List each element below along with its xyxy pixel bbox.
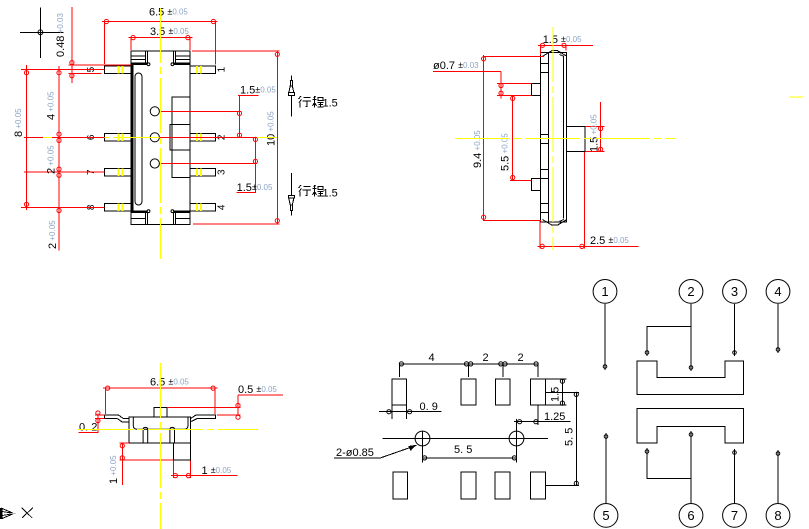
pcb dim 1.25 (514, 406, 571, 426)
travel arrow up (288, 76, 294, 117)
svg-text:1: 1 (601, 284, 608, 299)
pin 6 row leader redraw (52, 136, 104, 138)
side view horizontal centerline (455, 138, 676, 140)
plan view pin 8 (104, 204, 131, 212)
plan view bottom-left mount tab (131, 210, 150, 225)
svg-text:7: 7 (731, 508, 738, 523)
dim 1 front left (120, 443, 174, 485)
front view right leg (170, 427, 175, 443)
pin number labels plan view (86, 66, 228, 210)
pcb dim 1.5 pad (546, 379, 579, 405)
pcb pad bottom 2 (461, 472, 476, 499)
terminal circle 7 (723, 504, 747, 528)
plan view vertical centerline (160, 8, 162, 259)
pcb pad top 3 (496, 379, 510, 405)
plan view top-left mount tab (131, 51, 150, 66)
plan view slider block (170, 97, 190, 178)
dim 1.5 knob (585, 102, 605, 151)
svg-text:2-ø0.85: 2-ø0.85 (336, 447, 374, 459)
contact bracket bottom (637, 408, 744, 443)
svg-text:4: 4 (429, 352, 435, 364)
pcb pad bottom 3 (495, 472, 510, 499)
front view right gull wing (191, 415, 216, 422)
dim 6.5 top (102, 19, 218, 64)
contact circle leader lines (159, 111, 257, 163)
svg-text:3: 3 (731, 284, 738, 299)
plan view pin 6 (104, 134, 131, 142)
dim 0.2 front (78, 411, 104, 432)
side view vertical centerline (552, 27, 554, 250)
plan view top-right mount tab (171, 51, 190, 66)
far right stray centerline (789, 96, 803, 98)
schematic pin line 7 (733, 449, 737, 503)
schematic pin line 2 (645, 304, 693, 371)
origin crosshair (20, 8, 63, 58)
dim 0.48 (69, 7, 132, 83)
svg-text:5. 5: 5. 5 (454, 444, 472, 456)
front view vertical centerline (160, 363, 162, 529)
front view body (129, 417, 190, 443)
corner marker X (22, 508, 33, 518)
plan view pin 7 (104, 168, 131, 176)
plan view contact hole bottom (150, 159, 159, 168)
plan view switch body outline (131, 51, 190, 225)
plan view horizontal centerline (43, 136, 277, 138)
svg-text:3: 3 (217, 169, 228, 175)
side view bottom bent tab (543, 220, 567, 226)
plan view contact hole top (150, 107, 159, 116)
plan view pin hatch marks (118, 66, 201, 211)
pcb dim 5.5 horizontal (423, 447, 517, 463)
terminal circle 6 (679, 504, 703, 528)
plan view pin 5 (104, 66, 131, 74)
svg-text:1: 1 (217, 66, 228, 72)
front view horizontal centerline (78, 429, 258, 431)
terminal circle 4 (766, 280, 790, 304)
terminal circle 5 (594, 504, 618, 528)
pcb pad top 4 (531, 379, 546, 405)
pcb dim 0.9 (379, 406, 442, 420)
pcb slot centerline (383, 438, 549, 440)
pcb callout 2-dia0.85 (334, 445, 417, 458)
pcb dim 5.5 vertical (546, 392, 579, 485)
dim 5.5 side (510, 95, 532, 180)
side view terminal boss upper (532, 83, 541, 95)
travel label upper (xing cheng 1.5) (299, 96, 324, 108)
pcb pad bottom 4 (531, 472, 546, 499)
svg-text:1.25: 1.25 (544, 411, 565, 423)
schematic pin line 6 (645, 431, 693, 503)
dim 9.4 side (482, 55, 545, 221)
plan view contact hole middle (150, 133, 159, 142)
plan dim rows red leader lines (21, 70, 104, 208)
pcb pad bottom 1 (393, 472, 407, 499)
dim dia 0.7 (433, 72, 531, 99)
plan view bottom-right mount tab (171, 210, 190, 225)
terminal circle 1 (593, 280, 617, 304)
plan view pin 4 (190, 204, 216, 212)
svg-text:4: 4 (774, 284, 781, 299)
dim 1.5 contact lower (237, 137, 258, 192)
side view actuator knob (566, 126, 585, 151)
pcb via hole left (415, 431, 430, 460)
svg-text:8: 8 (774, 508, 781, 523)
front view inner cavity (133, 417, 188, 429)
terminal circle 8 (766, 504, 790, 528)
svg-text:0. 9: 0. 9 (420, 401, 438, 413)
plan view pin 3 (190, 168, 216, 176)
svg-text:4: 4 (217, 204, 228, 210)
svg-text:2: 2 (687, 284, 694, 299)
terminal circle 3 (723, 280, 747, 304)
plan view pin 2 (190, 134, 216, 142)
pcb pad top 2 (461, 379, 476, 405)
schematic pin line 4 (776, 304, 780, 353)
side view body (541, 53, 567, 222)
svg-text:2: 2 (518, 352, 524, 364)
dim 0.5 front (167, 395, 283, 419)
svg-text:5: 5 (602, 508, 609, 523)
schematic pin line 3 (733, 304, 737, 356)
contact bracket top (637, 361, 744, 395)
svg-text:6: 6 (687, 508, 694, 523)
front view knob (154, 408, 167, 418)
pcb dim 4/2/2 (399, 362, 538, 377)
terminal circle 2 (679, 280, 703, 304)
plan view pin 1 (190, 66, 216, 74)
dim 1 front right (171, 461, 237, 479)
plan view actuator slot (135, 73, 142, 205)
dim 3.5 top (129, 36, 193, 51)
dim 1.5 side top (538, 43, 593, 55)
side view pin stubs (541, 64, 549, 213)
dim 1.5 contact upper (237, 95, 258, 137)
dim 2.5 side bottom (538, 152, 639, 249)
rotated dim texts left (13, 13, 67, 249)
svg-text:5. 5: 5. 5 (564, 428, 576, 446)
svg-text:1.5: 1.5 (323, 188, 338, 200)
travel label lower (xing cheng 1.5) (299, 185, 324, 197)
front view left leg (143, 427, 148, 443)
svg-text:1.5: 1.5 (550, 387, 562, 402)
pcb via hole right (509, 419, 524, 460)
front view foot (173, 443, 190, 460)
svg-text:2: 2 (483, 352, 489, 364)
schematic pin line 5 (604, 433, 608, 503)
svg-text:1.5: 1.5 (323, 98, 338, 110)
dim 8+0.05 vertical (24, 65, 28, 210)
schematic pin line 8 (776, 450, 780, 503)
corner marker triangle (0, 508, 16, 519)
dim 10 right vertical (192, 51, 279, 224)
dim 6.5 front (103, 386, 218, 414)
contact 2 leader redraw (159, 136, 257, 138)
pcb pad top 1 (392, 379, 406, 405)
front view left gull wing (104, 415, 129, 422)
side view top bent tab (543, 51, 567, 57)
svg-text:0. 2: 0. 2 (79, 422, 97, 434)
travel arrow down (288, 173, 294, 215)
dim 4/2/2 vertical (57, 66, 61, 250)
schematic pin line 1 (603, 304, 607, 370)
side view terminal boss lower (532, 179, 541, 191)
